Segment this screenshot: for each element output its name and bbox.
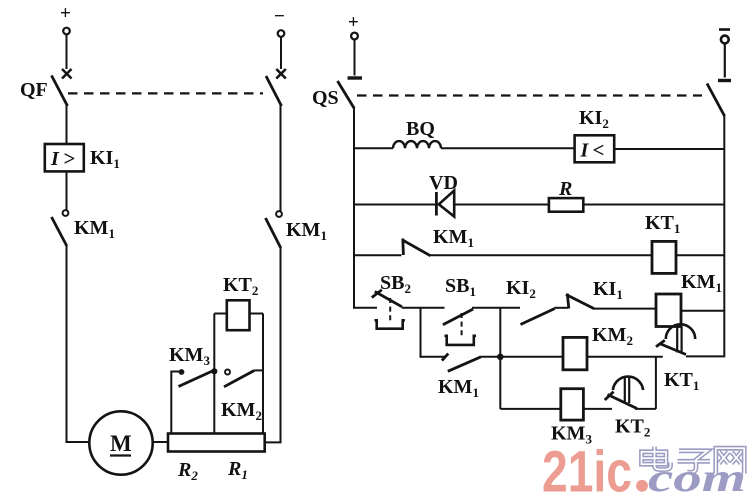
- terminal circle control positive: [351, 33, 358, 40]
- inductor BQ: [393, 141, 441, 148]
- label BQ: [406, 118, 435, 140]
- svg-text:−: −: [274, 6, 285, 27]
- node + (left supply positive): [60, 3, 71, 24]
- rung 6: wire: [500, 408, 561, 410]
- wire: [686, 311, 724, 357]
- contact KM1 main pole 2 terminal: [276, 211, 282, 217]
- node latch junction dot: [497, 354, 504, 361]
- contact KM1 main pole 1 blade: [52, 217, 67, 246]
- svg-text:>: >: [64, 147, 76, 171]
- label KT2 contact: [615, 416, 650, 440]
- label KT1 contact: [664, 369, 699, 393]
- coil KM2 box: [563, 337, 587, 369]
- pushbutton SB2 head bracket: [375, 320, 405, 328]
- label R: [558, 178, 572, 200]
- wire: [280, 104, 282, 211]
- breaker contact cross QF pole 1: [62, 69, 72, 79]
- contact KM3 blade: [179, 371, 214, 387]
- label KM3: [169, 344, 210, 368]
- logo char zi: [678, 451, 711, 473]
- svg-text:QF: QF: [20, 79, 48, 101]
- wire middle tap vertical: [213, 314, 215, 434]
- label KI2 contact: [506, 277, 536, 301]
- contact KT1 delayed tick: [656, 340, 665, 347]
- contact KI1 blade: [566, 295, 594, 309]
- svg-text:BQ: BQ: [406, 118, 435, 140]
- wire: [555, 307, 569, 309]
- switch QS blade: [338, 81, 355, 109]
- undercurrent relay KI2 box: [575, 135, 615, 162]
- wire: [614, 148, 724, 150]
- label KM2 coil: [592, 324, 633, 348]
- wire: [583, 204, 724, 206]
- breaker contact cross QF pole 2: [276, 69, 286, 79]
- svg-text:com: com: [648, 455, 746, 494]
- contact KM1 main pole 2 blade: [266, 218, 281, 248]
- contact KT2 delayed blade: [608, 395, 638, 409]
- wire: [66, 104, 68, 144]
- node - (left supply negative): [274, 6, 285, 27]
- wire latch node vertical: [499, 308, 501, 409]
- svg-text:VD: VD: [429, 172, 458, 194]
- label KI2: [579, 107, 609, 131]
- wire latch branch lower: [421, 356, 445, 358]
- dashed linkage line QF: [68, 92, 263, 94]
- svg-text:<: <: [593, 138, 605, 162]
- wire latch branch vertical: [420, 308, 422, 358]
- dashed linkage line QS: [357, 94, 702, 96]
- wire KT2 loop horizontals: [214, 313, 263, 315]
- contact KM1 latch tick: [442, 354, 448, 361]
- contact KT2 delay arc: [613, 377, 643, 403]
- contact KM1 main pole 1 terminal: [63, 210, 69, 216]
- label KM1 rung3: [433, 226, 474, 250]
- terminal circle control negative: [721, 36, 729, 44]
- wire: [724, 44, 726, 78]
- wire: [472, 307, 520, 309]
- switch QS fixed contact bar: [348, 76, 363, 79]
- label KT1 coil: [645, 212, 680, 236]
- svg-text:+: +: [60, 3, 71, 24]
- pushbutton SB2 actuator dashed: [389, 298, 391, 321]
- contact KM1 rung3 tick: [401, 239, 404, 256]
- wire KM3 branch left vertical: [171, 372, 180, 434]
- label KM2: [221, 399, 262, 423]
- label KM1 latch: [438, 376, 479, 400]
- coil KT1 box: [652, 241, 676, 273]
- wire right loop vertical: [262, 314, 264, 434]
- node junction dot tap: [211, 368, 217, 374]
- breaker QF blade pole 1: [52, 76, 68, 107]
- svg-text:R: R: [558, 178, 572, 200]
- contact KI1 tick: [567, 294, 569, 309]
- wire left control rail: [353, 108, 355, 309]
- wire: [430, 254, 652, 256]
- label SB2: [380, 272, 411, 296]
- node - (control supply negative): [719, 28, 730, 31]
- logo char dian: [642, 447, 671, 470]
- wire right control rail upper: [723, 114, 725, 311]
- wire: [635, 408, 656, 410]
- logo dot: [636, 480, 648, 492]
- motor M: [89, 411, 152, 474]
- pushbutton SB1 blade: [443, 309, 473, 325]
- terminal circle left negative: [278, 30, 285, 37]
- node + (control supply positive): [348, 12, 359, 33]
- wire: [280, 37, 282, 69]
- label QF: [20, 79, 48, 101]
- svg-text:21ic: 21ic: [542, 440, 632, 495]
- logo 21ic text: [542, 440, 632, 499]
- contact KM1 rung3 blade: [403, 240, 431, 256]
- wire right rail down to resistor: [265, 247, 281, 442]
- logo com text: [648, 455, 746, 499]
- contact KI2 blade: [521, 309, 555, 325]
- wire: [587, 356, 663, 358]
- resistor box R2 R1: [168, 434, 265, 452]
- wire left rail down to motor: [67, 245, 90, 442]
- svg-text:M: M: [110, 431, 132, 456]
- wire KT2 branch vertical: [655, 357, 657, 409]
- terminal circle left positive: [63, 28, 70, 35]
- diode VD: [436, 191, 454, 217]
- rung 1: wire: [354, 147, 393, 149]
- wire: [402, 307, 445, 309]
- label VD: [429, 172, 458, 194]
- pushbutton SB2 tick: [372, 290, 382, 298]
- rung 2: wire: [354, 204, 436, 206]
- pushbutton SB1 head bracket: [445, 336, 477, 345]
- breaker QF blade pole 2: [266, 76, 282, 106]
- label KM1 pole 2: [286, 219, 327, 243]
- coil KM1 box: [656, 294, 681, 327]
- label R1: [227, 458, 248, 482]
- contact KT2 delayed tick: [605, 392, 614, 400]
- rung 3: wire: [354, 254, 402, 256]
- label SB1: [445, 275, 476, 299]
- logo char wang: [716, 448, 744, 473]
- wire: [594, 308, 656, 310]
- label KM3 coil: [551, 423, 592, 447]
- contact KM2 terminal: [225, 370, 230, 375]
- contact KT1 delayed blade: [660, 344, 687, 355]
- coil KM3 box: [561, 389, 584, 420]
- label R2: [177, 459, 198, 483]
- svg-text:+: +: [348, 12, 359, 33]
- label QS: [312, 87, 339, 109]
- rung 5: wire: [500, 356, 563, 358]
- contact KM2 blade: [224, 370, 263, 386]
- contact KM1 latch blade: [448, 357, 481, 372]
- rung 4: wire: [354, 307, 377, 309]
- svg-text:I: I: [50, 148, 60, 170]
- wire motor to resistor: [153, 441, 168, 443]
- wire: [454, 204, 549, 206]
- wire: [66, 35, 68, 70]
- svg-text:QS: QS: [312, 87, 339, 109]
- wire: [676, 254, 724, 256]
- wire: [66, 171, 68, 210]
- switch QS pole 2 blade: [707, 84, 725, 117]
- label KT2: [223, 274, 258, 298]
- wire: [681, 310, 724, 312]
- wire: [481, 356, 501, 358]
- overcurrent relay KI1 box: [45, 144, 84, 171]
- node KM3 fixed terminal dot: [179, 369, 185, 375]
- pushbutton SB2 blade: [375, 292, 402, 307]
- wire: [354, 40, 356, 76]
- coil KT2 box: [227, 300, 250, 330]
- contact KT1 delay arc: [666, 324, 695, 352]
- label KM1 coil: [681, 271, 722, 295]
- resistor R box: [549, 198, 583, 212]
- label KI1 contact: [593, 278, 623, 302]
- wire: [583, 408, 612, 410]
- switch QS pole 2 fixed contact bar: [718, 79, 731, 82]
- label KI1: [90, 147, 120, 171]
- label KM1: [74, 217, 115, 241]
- wire: [441, 147, 575, 149]
- pushbutton SB1 actuator dashed: [461, 313, 463, 336]
- svg-text:I: I: [580, 140, 590, 162]
